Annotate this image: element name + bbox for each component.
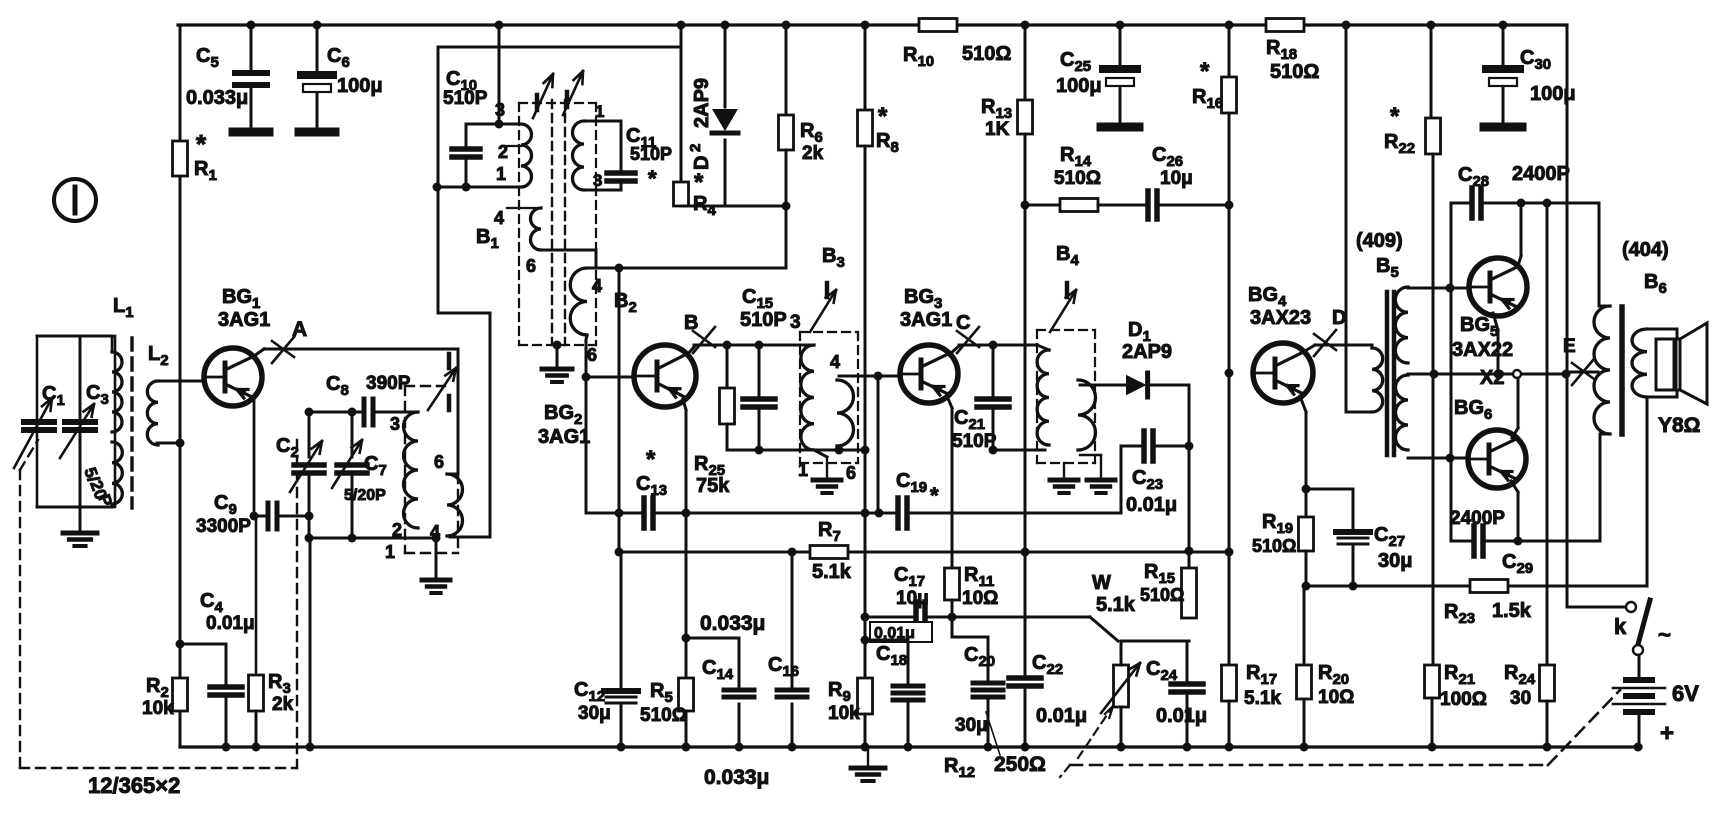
svg-text:10Ω: 10Ω [962,588,998,609]
svg-text:30μ: 30μ [578,703,611,724]
svg-text:100μ: 100μ [1056,75,1102,97]
svg-text:2AP9: 2AP9 [1122,341,1172,363]
svg-text:*: * [1390,103,1400,130]
svg-text:510P: 510P [443,88,488,109]
svg-text:6: 6 [434,452,444,472]
svg-text:510P: 510P [630,144,672,164]
svg-text:3: 3 [495,100,505,120]
svg-text:4: 4 [592,276,602,296]
svg-text:5.1k: 5.1k [1244,688,1281,709]
svg-text:30μ: 30μ [955,715,988,736]
svg-text:*: * [930,483,939,508]
svg-text:510P: 510P [740,309,787,331]
svg-text:*: * [196,129,207,159]
svg-text:10μ: 10μ [896,588,929,609]
svg-text:E: E [1563,336,1576,357]
svg-text:B: B [684,312,698,334]
svg-text:3300P: 3300P [196,516,251,537]
svg-text:(409): (409) [1356,230,1403,252]
svg-text:510Ω: 510Ω [1252,536,1296,556]
svg-text:*: * [1200,58,1210,85]
svg-text:6: 6 [846,463,856,483]
svg-text:510Ω: 510Ω [640,705,687,726]
svg-text:6: 6 [587,345,597,365]
svg-text:5.1k: 5.1k [1096,594,1136,616]
svg-text:0.033μ: 0.033μ [700,612,765,635]
svg-text:6: 6 [526,256,536,276]
svg-text:3: 3 [390,414,400,434]
svg-text:75k: 75k [696,475,730,497]
svg-text:510Ω: 510Ω [1270,61,1319,83]
svg-text:k: k [1614,614,1627,639]
svg-text:(404): (404) [1622,239,1669,261]
svg-text:2AP9: 2AP9 [691,78,713,128]
svg-text:X2: X2 [1480,367,1504,389]
svg-text:2k: 2k [272,694,294,715]
svg-text:*: * [878,103,888,130]
svg-text:3AG1: 3AG1 [538,426,590,448]
svg-text:+: + [1660,720,1674,747]
svg-text:3: 3 [593,171,602,190]
svg-text:5.1k: 5.1k [812,561,852,583]
svg-text:D: D [1332,307,1346,329]
svg-text:30: 30 [1510,688,1531,709]
svg-text:10k: 10k [828,703,860,724]
svg-text:W: W [1092,572,1111,594]
svg-text:12/365×2: 12/365×2 [88,773,180,798]
svg-text:*: * [648,166,657,191]
svg-text:4: 4 [830,352,840,372]
svg-text:1: 1 [385,542,395,562]
svg-text:3AX22: 3AX22 [1452,339,1513,361]
svg-text:6V: 6V [1672,681,1699,706]
svg-text:A: A [292,318,307,341]
svg-text:1K: 1K [985,119,1010,140]
svg-text:100Ω: 100Ω [1440,689,1487,710]
svg-text:3AG1: 3AG1 [900,309,952,331]
svg-text:10k: 10k [142,698,174,719]
svg-text:D: D [691,156,713,170]
svg-text:0.033μ: 0.033μ [186,87,248,109]
svg-text:1: 1 [595,102,604,121]
svg-text:C: C [956,312,970,334]
svg-text:250Ω: 250Ω [994,753,1046,776]
svg-text:2400P: 2400P [1512,163,1570,185]
svg-text:510Ω: 510Ω [1140,585,1184,605]
svg-text:2: 2 [498,142,508,162]
svg-text:5/20P: 5/20P [344,487,386,504]
svg-text:0.01μ: 0.01μ [1126,494,1177,516]
svg-text:0.01μ: 0.01μ [206,613,255,634]
svg-text:1.5k: 1.5k [1492,600,1532,622]
svg-text:2: 2 [687,144,704,152]
svg-text:*: * [694,169,704,196]
svg-text:0.033μ: 0.033μ [704,766,769,789]
svg-text:3: 3 [790,312,801,333]
svg-text:30μ: 30μ [1378,550,1412,572]
svg-text:10Ω: 10Ω [1318,687,1354,708]
svg-text:~: ~ [1658,622,1671,647]
svg-text:100μ: 100μ [337,75,383,97]
svg-text:100μ: 100μ [1530,83,1576,105]
svg-text:Y8Ω: Y8Ω [1658,414,1701,437]
svg-text:3AG1: 3AG1 [218,309,270,331]
svg-text:4: 4 [494,208,504,228]
svg-text:510Ω: 510Ω [962,43,1011,65]
svg-text:0.01μ: 0.01μ [1036,705,1087,727]
svg-text:510P: 510P [952,431,997,452]
svg-text:2: 2 [392,520,402,540]
svg-text:4: 4 [430,522,440,542]
svg-text:3AX23: 3AX23 [1250,307,1311,329]
svg-text:10μ: 10μ [1160,168,1193,189]
svg-text:1: 1 [496,164,506,184]
svg-text:0.01μ: 0.01μ [1156,705,1207,727]
svg-text:2k: 2k [802,143,824,164]
svg-text:*: * [646,446,656,473]
svg-text:510Ω: 510Ω [1054,168,1101,189]
svg-text:2400P: 2400P [1450,508,1505,529]
svg-text:1: 1 [798,460,808,480]
